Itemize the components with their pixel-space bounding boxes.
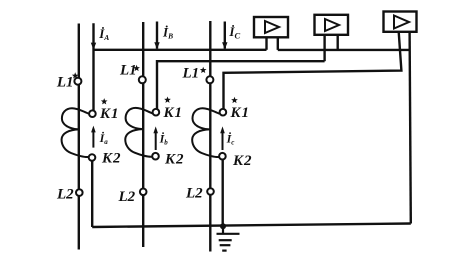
svg-text:K1: K1 — [99, 106, 120, 122]
svg-text:K1: K1 — [163, 105, 184, 121]
svg-text:L2: L2 — [185, 186, 203, 202]
svg-text:L1: L1 — [119, 63, 137, 79]
svg-text:K1: K1 — [230, 105, 251, 121]
svg-text:K2: K2 — [101, 150, 122, 166]
svg-text:K2: K2 — [164, 152, 185, 168]
svg-text:L2: L2 — [56, 187, 74, 203]
svg-text:K2: K2 — [232, 153, 253, 169]
svg-text:L1: L1 — [56, 74, 74, 90]
svg-text:L1: L1 — [182, 66, 200, 82]
svg-text:L2: L2 — [118, 189, 136, 205]
